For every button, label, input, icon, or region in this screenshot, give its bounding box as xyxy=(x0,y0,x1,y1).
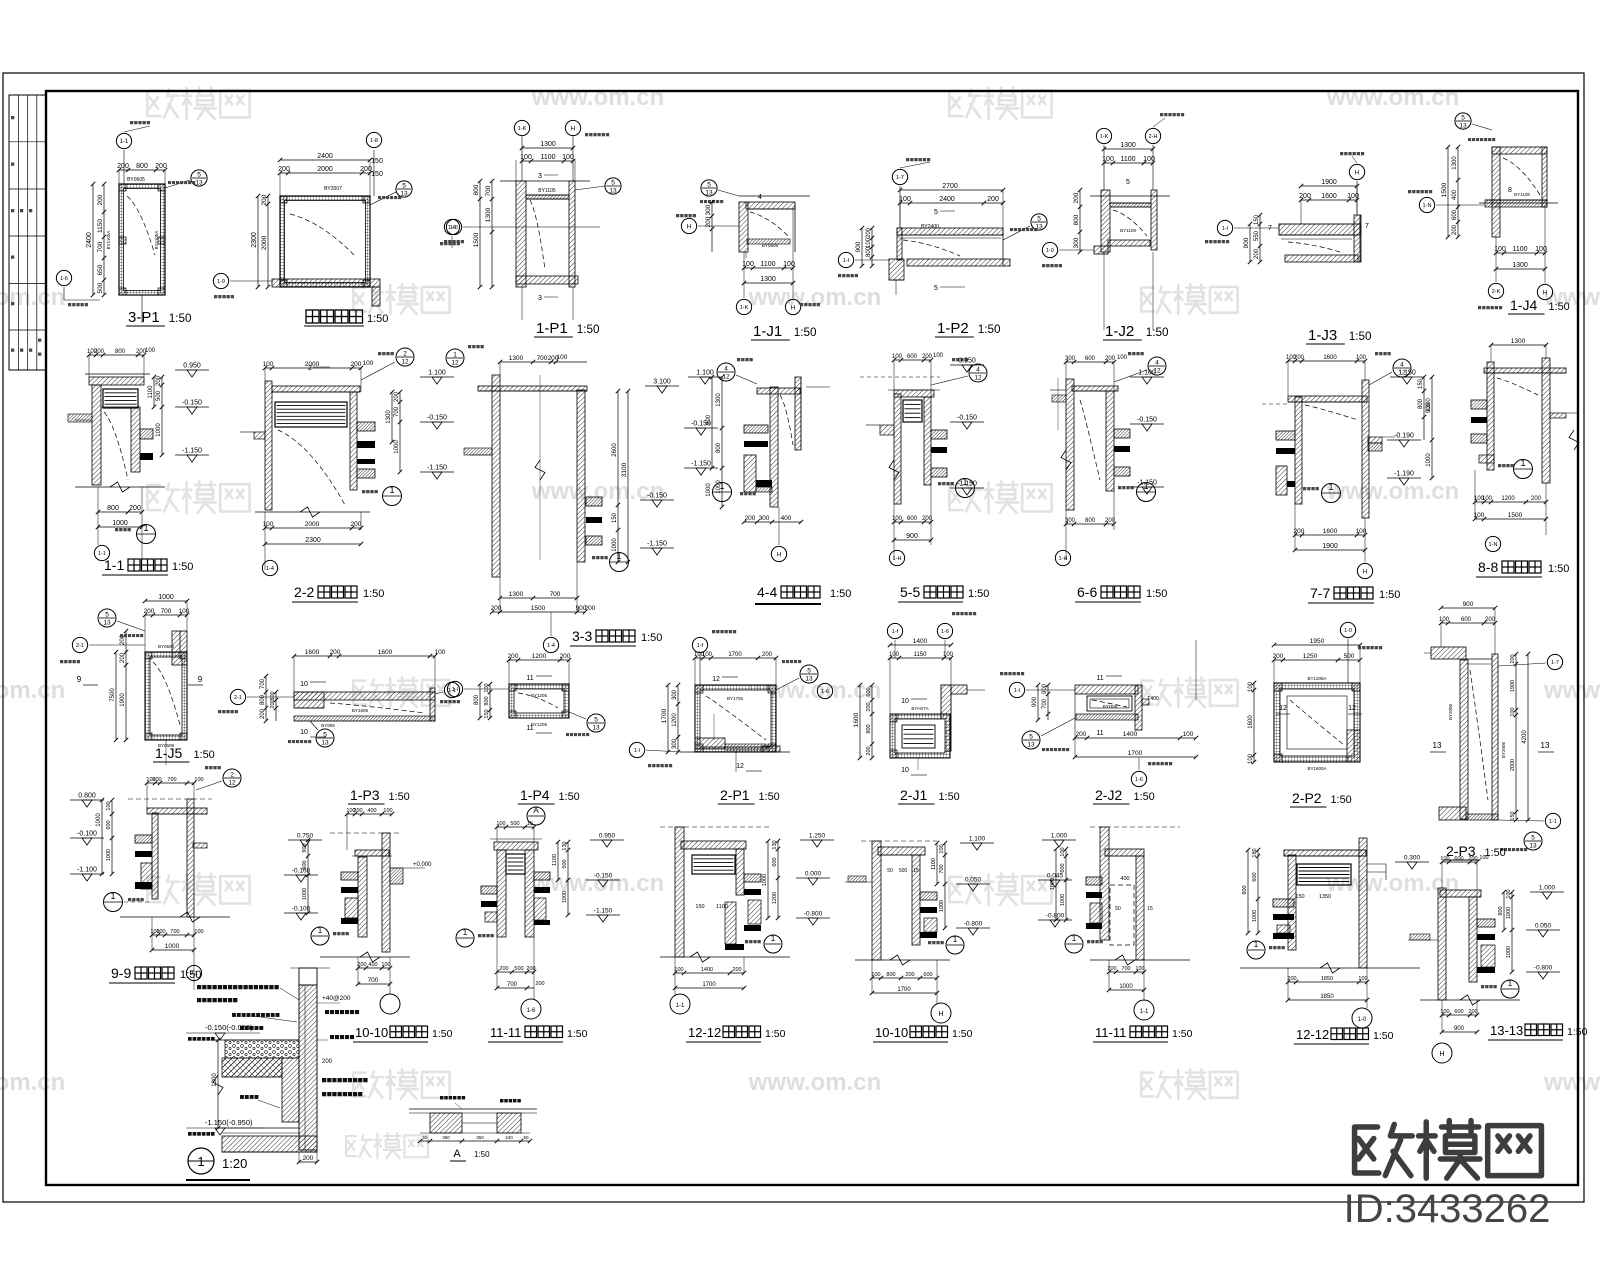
dims bottom 12-12b xyxy=(1288,981,1367,983)
axis bubble 1-8 xyxy=(373,150,375,196)
svg-text:1000: 1000 xyxy=(1060,894,1066,906)
svg-text:1: 1 xyxy=(1328,482,1333,492)
axis bubble 1-17 xyxy=(899,186,901,228)
svg-text:1600: 1600 xyxy=(1248,715,1254,729)
svg-text:1: 1 xyxy=(453,352,457,359)
dims bottom 8-8 xyxy=(1475,501,1546,503)
detail 1-1 section xyxy=(89,377,144,385)
svg-text:400: 400 xyxy=(781,515,792,522)
bubble 1 10-10a xyxy=(311,927,329,945)
svg-text:500: 500 xyxy=(514,966,523,972)
svg-text:100: 100 xyxy=(1474,512,1485,519)
bubble 5/13 xyxy=(165,180,190,188)
svg-text:50: 50 xyxy=(523,1135,529,1140)
svg-text:1.250: 1.250 xyxy=(809,833,826,840)
svg-text:700: 700 xyxy=(550,591,561,598)
svg-text:200: 200 xyxy=(1299,193,1311,200)
svg-text:600: 600 xyxy=(1454,856,1463,862)
axis bubbles bottom xyxy=(1488,283,1503,298)
svg-text:100: 100 xyxy=(1440,856,1449,862)
detail 1-J3 section xyxy=(1279,224,1360,235)
dims 1-P3 xyxy=(294,655,435,657)
axis bubbles bottom xyxy=(736,299,751,314)
svg-text:9: 9 xyxy=(198,675,203,684)
svg-text:-1.150: -1.150 xyxy=(647,541,667,548)
svg-text:1700: 1700 xyxy=(1128,750,1143,757)
svg-text:200: 200 xyxy=(535,981,544,987)
detail 2-P1 plan xyxy=(695,685,776,752)
svg-text:300: 300 xyxy=(270,691,276,700)
svg-text:700: 700 xyxy=(394,406,400,417)
detail 2-P2 plan xyxy=(1274,683,1360,762)
svg-text:150: 150 xyxy=(371,158,383,165)
svg-text:2400: 2400 xyxy=(939,196,955,203)
svg-text:300: 300 xyxy=(1073,237,1080,248)
svg-text:200: 200 xyxy=(732,967,741,973)
svg-text:9: 9 xyxy=(77,675,82,684)
detail 8-8 section xyxy=(1487,362,1494,470)
svg-text:200: 200 xyxy=(94,349,105,355)
svg-text:200: 200 xyxy=(987,196,999,203)
dims 2-P3 top xyxy=(1441,607,1495,609)
bubble 4/12 7-7 xyxy=(1393,359,1411,377)
svg-text:www.om.cn: www.om.cn xyxy=(748,1069,881,1096)
svg-text:5: 5 xyxy=(402,183,406,190)
bubble 1 7-7 xyxy=(1322,484,1341,503)
svg-text:-1.190: -1.190 xyxy=(1394,471,1414,478)
svg-text:800: 800 xyxy=(1418,398,1424,409)
axis bubble 1-6 2-P1 xyxy=(817,683,832,698)
levels left 4-4 xyxy=(688,376,722,378)
svg-text:13: 13 xyxy=(1027,742,1035,749)
svg-text:600: 600 xyxy=(907,516,918,522)
svg-text:BY1205: BY1205 xyxy=(531,693,548,698)
svg-text:1-1: 1-1 xyxy=(676,1003,685,1009)
svg-text:1700: 1700 xyxy=(897,987,911,993)
dims bottom 11-11a xyxy=(497,971,534,973)
svg-text:1:50: 1:50 xyxy=(1133,791,1154,803)
svg-text:150: 150 xyxy=(1418,378,1424,389)
top dims 10-10a xyxy=(347,813,392,815)
svg-text:1000: 1000 xyxy=(1506,907,1512,919)
svg-text:100: 100 xyxy=(943,652,954,658)
svg-text:1-9: 1-9 xyxy=(217,279,225,285)
svg-text:3: 3 xyxy=(538,295,542,302)
svg-text:100: 100 xyxy=(557,354,568,361)
svg-text:12: 12 xyxy=(736,763,744,770)
axis bubble bottom 2-2 xyxy=(262,560,277,575)
svg-text:300: 300 xyxy=(759,515,770,522)
svg-text:800: 800 xyxy=(886,972,895,978)
svg-text:-0.150: -0.150 xyxy=(182,400,202,407)
svg-text:2-1: 2-1 xyxy=(234,695,242,701)
svg-text:1: 1 xyxy=(1254,940,1259,949)
svg-text:900: 900 xyxy=(1454,1026,1465,1032)
svg-text:400: 400 xyxy=(1452,189,1458,200)
title strip table xyxy=(9,95,46,370)
svg-text:1-6: 1-6 xyxy=(527,1008,536,1014)
axis bubble 2-M 9-9 xyxy=(186,965,201,980)
svg-text:4200: 4200 xyxy=(1522,730,1528,744)
svg-text:600: 600 xyxy=(1085,356,1096,362)
svg-text:200: 200 xyxy=(156,375,162,386)
svg-text:200: 200 xyxy=(705,216,712,227)
svg-text:200: 200 xyxy=(144,608,155,615)
svg-text:BY1109: BY1109 xyxy=(1120,228,1136,233)
svg-text:2: 2 xyxy=(403,351,407,358)
svg-text:100: 100 xyxy=(899,196,911,203)
svg-text:4: 4 xyxy=(1155,360,1159,367)
svg-text:1-K: 1-K xyxy=(740,305,749,311)
svg-text:om.cn: om.cn xyxy=(0,677,65,704)
svg-text:2-H: 2-H xyxy=(1149,134,1158,140)
svg-text:600: 600 xyxy=(106,820,112,829)
axis bubble 1-l xyxy=(838,252,853,267)
detail 10-10a section xyxy=(382,833,390,952)
svg-text:1:50: 1:50 xyxy=(1330,794,1351,806)
svg-text:1:50: 1:50 xyxy=(363,588,384,600)
svg-text:1.000: 1.000 xyxy=(1539,885,1556,892)
svg-text:1:50: 1:50 xyxy=(172,561,193,573)
svg-text:1.000: 1.000 xyxy=(1051,833,1068,840)
bubble 1 mid xyxy=(137,525,156,544)
levels 10-10b xyxy=(960,842,994,844)
svg-text:1-K: 1-K xyxy=(1100,134,1109,140)
svg-text:13: 13 xyxy=(103,620,111,627)
svg-text:800: 800 xyxy=(1498,906,1504,915)
svg-text:50: 50 xyxy=(1115,906,1121,912)
svg-text:15: 15 xyxy=(913,868,919,874)
svg-text:0.000: 0.000 xyxy=(805,871,822,878)
svg-text:650: 650 xyxy=(97,264,104,275)
bubble 1 11-11b xyxy=(1065,935,1083,953)
dims bottom 7-7 xyxy=(1295,534,1365,536)
svg-text:2400: 2400 xyxy=(317,153,333,160)
svg-text:1100: 1100 xyxy=(540,154,555,161)
svg-text:1500: 1500 xyxy=(1508,512,1523,519)
svg-text:800: 800 xyxy=(484,696,490,705)
svg-text:1900: 1900 xyxy=(120,693,126,707)
svg-text:3-P1: 3-P1 xyxy=(128,309,160,326)
svg-text:1.150: 1.150 xyxy=(1398,370,1416,377)
bubble 5/13 2-P3 xyxy=(1524,832,1542,850)
right dims 3-3 xyxy=(627,391,629,562)
svg-text:600: 600 xyxy=(1060,863,1066,872)
svg-text:13: 13 xyxy=(592,725,600,732)
svg-text:600: 600 xyxy=(1452,209,1458,220)
svg-text:2-1: 2-1 xyxy=(76,643,84,649)
svg-text:150: 150 xyxy=(695,904,704,910)
axis bubble 1-6 xyxy=(446,219,461,234)
axis bubble H left xyxy=(1419,197,1434,212)
svg-text:-0.800: -0.800 xyxy=(964,921,983,928)
svg-text:400: 400 xyxy=(1120,876,1129,882)
dims 2-P2 xyxy=(1274,644,1360,646)
svg-text:11-11: 11-11 xyxy=(490,1025,521,1040)
svg-text:1:20: 1:20 xyxy=(222,1156,247,1171)
bubble 1 xyxy=(383,487,402,506)
svg-text:-0.150: -0.150 xyxy=(1137,417,1157,424)
levels right 1-1 xyxy=(175,369,209,371)
svg-text:1:50: 1:50 xyxy=(474,1150,490,1159)
svg-text:100: 100 xyxy=(179,608,190,615)
dims bottom 4-4 xyxy=(744,521,801,523)
dims 1-J5 xyxy=(145,600,187,602)
bubble 5/13 right xyxy=(1003,226,1030,240)
svg-text:800: 800 xyxy=(1242,885,1248,894)
bubble 2/12 and 1/12 xyxy=(396,348,414,366)
svg-text:100: 100 xyxy=(674,967,683,973)
dims bottom 10-10b xyxy=(872,977,937,979)
svg-text:H: H xyxy=(687,223,692,230)
svg-text:1:50: 1:50 xyxy=(938,791,959,803)
svg-text:-0.150: -0.150 xyxy=(427,415,447,422)
svg-text:200: 200 xyxy=(330,649,341,656)
svg-text:1: 1 xyxy=(616,551,621,561)
axis bubbles top xyxy=(1103,145,1105,190)
svg-text:T400: T400 xyxy=(1147,696,1159,702)
svg-text:800: 800 xyxy=(260,694,266,705)
svg-text:12: 12 xyxy=(451,360,459,367)
bubble 1 8-8 xyxy=(1514,460,1533,479)
svg-text:800: 800 xyxy=(1073,214,1080,225)
svg-text:9-9: 9-9 xyxy=(111,965,131,981)
extra watermark bottom xyxy=(346,1135,371,1157)
detail 1-P3 long section xyxy=(294,692,435,700)
bubble 2/12 9-9 xyxy=(223,769,241,787)
bubble 5/13 right xyxy=(370,192,396,205)
svg-text:1600: 1600 xyxy=(305,649,320,656)
dims bottom 10-10a xyxy=(358,967,390,969)
svg-text:5: 5 xyxy=(1126,179,1130,186)
svg-text:1000: 1000 xyxy=(156,423,162,437)
svg-text:700: 700 xyxy=(97,241,104,252)
svg-text:10: 10 xyxy=(901,698,909,705)
svg-text:6-6: 6-6 xyxy=(1077,584,1097,600)
svg-text:1600: 1600 xyxy=(1321,193,1337,200)
svg-text:500: 500 xyxy=(156,390,162,401)
svg-text:100: 100 xyxy=(1510,707,1516,716)
svg-text:1300: 1300 xyxy=(1120,142,1136,149)
svg-text:3100: 3100 xyxy=(621,462,628,477)
svg-text:1.100: 1.100 xyxy=(428,370,446,377)
axis bubble 1-1 left xyxy=(1217,220,1232,235)
svg-text:2-K: 2-K xyxy=(1492,289,1501,295)
svg-text:5: 5 xyxy=(934,285,938,292)
svg-text:1000: 1000 xyxy=(939,900,945,912)
svg-text:1350: 1350 xyxy=(1319,894,1331,900)
svg-text:700: 700 xyxy=(485,185,492,196)
svg-text:200: 200 xyxy=(1485,617,1496,623)
svg-text:1100: 1100 xyxy=(148,385,154,399)
bubble 1 12-12a xyxy=(764,935,782,953)
svg-text:1000: 1000 xyxy=(302,888,308,900)
detail 1-J4 section xyxy=(1492,147,1500,237)
top dims 11-11a xyxy=(497,826,534,828)
svg-text:BYH07A: BYH07A xyxy=(911,706,928,711)
svg-text:100: 100 xyxy=(1117,355,1128,361)
dims bottom 1-1 xyxy=(98,511,142,513)
svg-text:1100: 1100 xyxy=(931,858,937,870)
vdim big detail xyxy=(217,1040,219,1128)
svg-text:100: 100 xyxy=(933,353,944,359)
svg-text:H: H xyxy=(777,551,782,558)
svg-text:200: 200 xyxy=(1273,653,1284,660)
levels 12-12b xyxy=(1395,861,1429,863)
detail 2-P3 tall section xyxy=(1460,660,1468,819)
svg-text:1-1: 1-1 xyxy=(104,557,124,573)
dims 2-P1 xyxy=(695,657,776,659)
svg-text:1-f: 1-f xyxy=(697,643,704,649)
axis bubble H 5-5 xyxy=(889,550,904,565)
top dashed 12-12a xyxy=(660,826,770,828)
svg-text:150: 150 xyxy=(484,709,490,718)
axis bubble top 2-P2 xyxy=(1340,622,1355,637)
svg-text:13: 13 xyxy=(400,191,408,198)
axis bubble 1-6 right xyxy=(444,219,459,234)
svg-text:1:50: 1:50 xyxy=(432,1028,453,1040)
svg-text:2-P1: 2-P1 xyxy=(720,787,750,803)
detail 11-11a tower section xyxy=(494,842,538,850)
svg-text:H: H xyxy=(791,304,796,311)
svg-text:800: 800 xyxy=(473,184,480,195)
svg-text:1000: 1000 xyxy=(112,520,128,527)
svg-text:2000: 2000 xyxy=(261,235,268,250)
svg-text:100: 100 xyxy=(156,929,165,935)
svg-text:200: 200 xyxy=(866,227,872,238)
inner wall xyxy=(282,1058,299,1122)
levels mid 7-7 xyxy=(1390,376,1424,378)
axis bubble 1-17 2-P3 xyxy=(1547,654,1562,669)
svg-text:1:50: 1:50 xyxy=(1172,1028,1193,1040)
svg-text:100: 100 xyxy=(1183,731,1194,738)
svg-text:1-0: 1-0 xyxy=(1358,1017,1367,1023)
svg-text:1:50: 1:50 xyxy=(968,588,989,600)
svg-text:200: 200 xyxy=(922,354,933,360)
svg-text:600: 600 xyxy=(923,972,932,978)
svg-text:1400: 1400 xyxy=(701,967,713,973)
bubble 1 3-3 xyxy=(610,553,629,572)
levels right 13-13 xyxy=(1530,891,1564,893)
left vdims xyxy=(479,181,481,287)
svg-text:BY0605: BY0605 xyxy=(127,177,145,183)
svg-text:130: 130 xyxy=(562,841,568,850)
svg-text:200: 200 xyxy=(866,746,872,755)
svg-text:100: 100 xyxy=(383,808,392,814)
svg-text:200: 200 xyxy=(1294,355,1305,361)
svg-text:100: 100 xyxy=(889,652,900,658)
svg-text:200: 200 xyxy=(1510,654,1516,663)
levels right 2-2 xyxy=(420,376,454,378)
bubble 1 4-4 xyxy=(713,483,732,502)
svg-text:400: 400 xyxy=(368,962,377,968)
svg-text:700: 700 xyxy=(161,608,172,615)
svg-text:300: 300 xyxy=(705,204,712,215)
svg-text:500: 500 xyxy=(97,282,104,293)
svg-text:1000: 1000 xyxy=(1050,878,1056,890)
svg-text:1:50: 1:50 xyxy=(577,323,600,336)
svg-text:12-12: 12-12 xyxy=(1296,1027,1329,1042)
axis bubble H 8-8 xyxy=(1485,536,1500,551)
svg-text:H: H xyxy=(571,125,576,132)
svg-text:200: 200 xyxy=(322,1059,333,1065)
bubble 1 9-9 xyxy=(104,893,123,912)
svg-text:1.100: 1.100 xyxy=(1138,370,1156,377)
svg-text:1-6: 1-6 xyxy=(60,276,68,282)
bubble 5/13 1-P3 xyxy=(316,729,334,747)
detail 9-9 section xyxy=(187,799,194,917)
detail 4-4 section xyxy=(770,387,778,507)
svg-text:100: 100 xyxy=(562,154,574,161)
svg-text:1700: 1700 xyxy=(702,982,716,988)
svg-text:www.om.cn: www.om.cn xyxy=(1326,478,1459,505)
svg-text:1-K: 1-K xyxy=(518,126,527,132)
svg-text:500: 500 xyxy=(562,859,568,868)
svg-text:200: 200 xyxy=(745,515,756,522)
svg-text:1-P4: 1-P4 xyxy=(520,787,550,803)
svg-text:8: 8 xyxy=(1508,187,1512,194)
svg-text:100: 100 xyxy=(194,777,203,783)
svg-text:1500: 1500 xyxy=(531,605,546,612)
svg-text:1000: 1000 xyxy=(762,874,768,886)
svg-text:300: 300 xyxy=(1065,518,1076,524)
svg-text:600: 600 xyxy=(907,354,918,360)
svg-text:150: 150 xyxy=(1254,214,1260,225)
svg-text:1-J2: 1-J2 xyxy=(1105,323,1134,340)
svg-text:0.750: 0.750 xyxy=(297,833,314,840)
svg-text:100: 100 xyxy=(106,801,112,810)
svg-text:-0.800: -0.800 xyxy=(1534,965,1553,972)
svg-text:3: 3 xyxy=(538,173,542,180)
bubble 5/13 xyxy=(701,180,717,196)
svg-text:12: 12 xyxy=(1348,705,1356,712)
svg-text:2700: 2700 xyxy=(942,183,958,190)
bubble 5/13 1-J5 xyxy=(98,609,116,627)
svg-text:BY805: BY805 xyxy=(321,723,335,728)
svg-text:1200: 1200 xyxy=(672,713,678,727)
svg-text:10: 10 xyxy=(300,729,308,736)
svg-text:100: 100 xyxy=(496,821,505,827)
svg-text:BY1205: BY1205 xyxy=(531,722,548,727)
svg-text:-1.150: -1.150 xyxy=(182,448,202,455)
svg-text:7: 7 xyxy=(1268,225,1272,232)
axis bubble H left xyxy=(681,218,696,233)
svg-text:100: 100 xyxy=(194,929,203,935)
svg-text:800: 800 xyxy=(115,349,126,355)
svg-text:200: 200 xyxy=(1468,1009,1477,1015)
svg-text:1:50: 1:50 xyxy=(1349,330,1372,343)
svg-text:1: 1 xyxy=(953,935,958,944)
svg-text:11-11: 11-11 xyxy=(1095,1025,1126,1040)
svg-text:1300: 1300 xyxy=(760,276,776,283)
svg-text:900: 900 xyxy=(1463,601,1474,608)
vdims 4-4 xyxy=(721,377,723,507)
svg-text:5: 5 xyxy=(707,182,711,189)
svg-text:1-H: 1-H xyxy=(893,556,902,562)
svg-text:13: 13 xyxy=(805,676,813,683)
svg-text:1:50: 1:50 xyxy=(558,791,579,803)
levels 10-10a xyxy=(288,839,322,841)
dims top 5-5 xyxy=(894,359,931,361)
main right wall hatched xyxy=(299,985,317,1150)
svg-text:13: 13 xyxy=(195,180,203,187)
svg-text:1500: 1500 xyxy=(1441,182,1448,197)
svg-text:1300: 1300 xyxy=(485,207,492,222)
svg-text:-0.800: -0.800 xyxy=(1046,913,1065,920)
bubble 5/13 2-P1 xyxy=(800,665,818,683)
svg-text:10: 10 xyxy=(300,681,308,688)
svg-text:om.cn: om.cn xyxy=(0,284,65,311)
